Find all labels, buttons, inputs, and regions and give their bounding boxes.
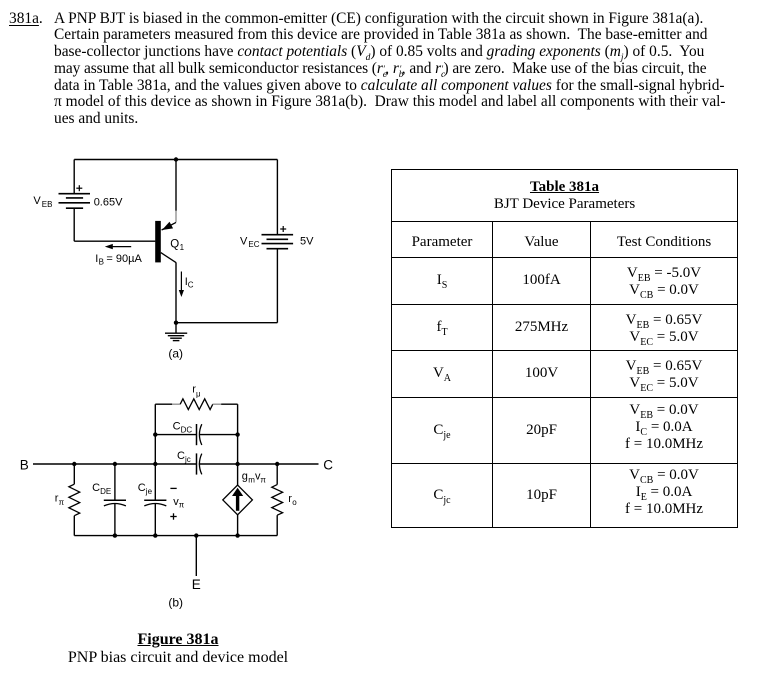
- label: V_EB battery + polarity: [76, 185, 82, 191]
- svg-text:1: 1: [180, 243, 185, 252]
- label: v_pi plus sign: [170, 513, 176, 519]
- svg-text:C: C: [188, 281, 194, 290]
- wire: C_DC rail left segment: [155, 434, 196, 436]
- svg-text:C: C: [323, 457, 333, 472]
- wire: bottom rail of bias circuit: [176, 322, 277, 324]
- capacitor C_jc: [197, 453, 202, 474]
- battery V_EC 5V: [262, 235, 294, 249]
- wire: C-prime up branch: [237, 404, 239, 464]
- svg-text:B: B: [99, 258, 104, 267]
- wire: collector vertical lead down to ground node: [175, 262, 177, 322]
- svg-text:V: V: [240, 236, 248, 248]
- label: V_EC battery + polarity: [280, 226, 286, 232]
- label: v_pi minus sign: [170, 487, 176, 489]
- wire: emitter vertical lead of Q1: [175, 160, 177, 212]
- capacitor C_je: [144, 464, 166, 536]
- svg-text:o: o: [292, 498, 297, 507]
- svg-text:(a): (a): [168, 347, 183, 361]
- node: collector-ground junction: [174, 321, 178, 325]
- capacitor C_DC: [197, 424, 202, 445]
- svg-text:C: C: [177, 450, 185, 462]
- dependent current source g_m*v_pi (diamond): [223, 485, 253, 515]
- ground symbol: [165, 323, 187, 341]
- svg-text:C: C: [138, 482, 146, 494]
- figure caption: [28, 631, 328, 667]
- wire: B to C_jc left plate (main line): [33, 463, 197, 465]
- resistor r_pi: [69, 464, 80, 536]
- wire: VEC negative lead down: [276, 249, 278, 323]
- wire: C_DC rail right segment: [199, 434, 238, 436]
- wire: B-prime up branch: [154, 404, 156, 464]
- node: collector-emitter top junction: [174, 157, 178, 161]
- resistor r_o: [272, 464, 283, 536]
- node: r_o top junction: [275, 462, 279, 466]
- transistor Q1 emitter diagonal with PNP arrow: [162, 222, 176, 230]
- node: C_DE top junction: [113, 462, 117, 466]
- wire: dependent source top lead: [237, 464, 239, 485]
- svg-text:B: B: [20, 457, 29, 472]
- node: C-prime junction: [235, 462, 239, 466]
- svg-text:DE: DE: [100, 487, 111, 496]
- node: C_DE bottom junction: [113, 533, 117, 537]
- svg-text:Q: Q: [170, 238, 179, 250]
- node: C_je bottom junction: [153, 533, 157, 537]
- svg-text:g: g: [242, 471, 248, 483]
- svg-text:C: C: [173, 420, 181, 432]
- wire: dependent source bottom lead: [237, 515, 239, 536]
- wire: VEC positive lead (top): [276, 160, 278, 235]
- svg-text:EC: EC: [248, 240, 259, 249]
- svg-text:5V: 5V: [300, 236, 314, 248]
- svg-text:π: π: [260, 476, 266, 485]
- wire: C_jc right plate to C (main line): [199, 463, 319, 465]
- label: base current arrow I_B (pointing left): [105, 244, 131, 249]
- node: C_DC rail right junction: [235, 432, 239, 436]
- wire: emitter stem: [195, 536, 197, 576]
- svg-text:π: π: [59, 498, 65, 507]
- svg-text:V: V: [33, 195, 41, 207]
- svg-text:je: je: [145, 487, 153, 496]
- wire: top rail left segment: [155, 403, 172, 405]
- node: source bottom junction: [235, 533, 239, 537]
- node: C_DC rail left junction: [153, 432, 157, 436]
- resistor r_mu: [172, 399, 221, 410]
- battery V_EB 0.65V: [59, 194, 91, 209]
- wire: VEB negative lead (bottom): [73, 208, 75, 241]
- svg-text:(b): (b): [168, 596, 183, 610]
- label: collector current arrow I_C (pointing down): [179, 272, 184, 298]
- svg-text:C: C: [92, 482, 100, 494]
- node: r_pi top junction: [72, 462, 76, 466]
- capacitor C_DE: [104, 464, 126, 536]
- transistor Q1 collector diagonal: [161, 253, 176, 263]
- wire: VEB positive lead (top): [73, 160, 75, 194]
- wire: top rail from VEB+ to VEC+: [74, 159, 277, 161]
- svg-text:E: E: [192, 577, 201, 592]
- node: emitter stem junction: [194, 533, 198, 537]
- svg-text:= 90µA: = 90µA: [106, 253, 142, 265]
- wire: bottom emitter rail: [74, 535, 277, 537]
- svg-text:0.65V: 0.65V: [94, 196, 123, 208]
- svg-text:DC: DC: [181, 425, 193, 434]
- svg-text:EB: EB: [42, 200, 53, 209]
- svg-text:μ: μ: [196, 389, 201, 398]
- svg-text:jc: jc: [184, 455, 191, 464]
- svg-text:π: π: [179, 501, 185, 510]
- wire: base wire to Q1: [74, 240, 155, 242]
- wire: top rail right segment: [221, 403, 237, 405]
- transistor Q1 base bar: [155, 221, 161, 263]
- node: B-prime junction: [153, 462, 157, 466]
